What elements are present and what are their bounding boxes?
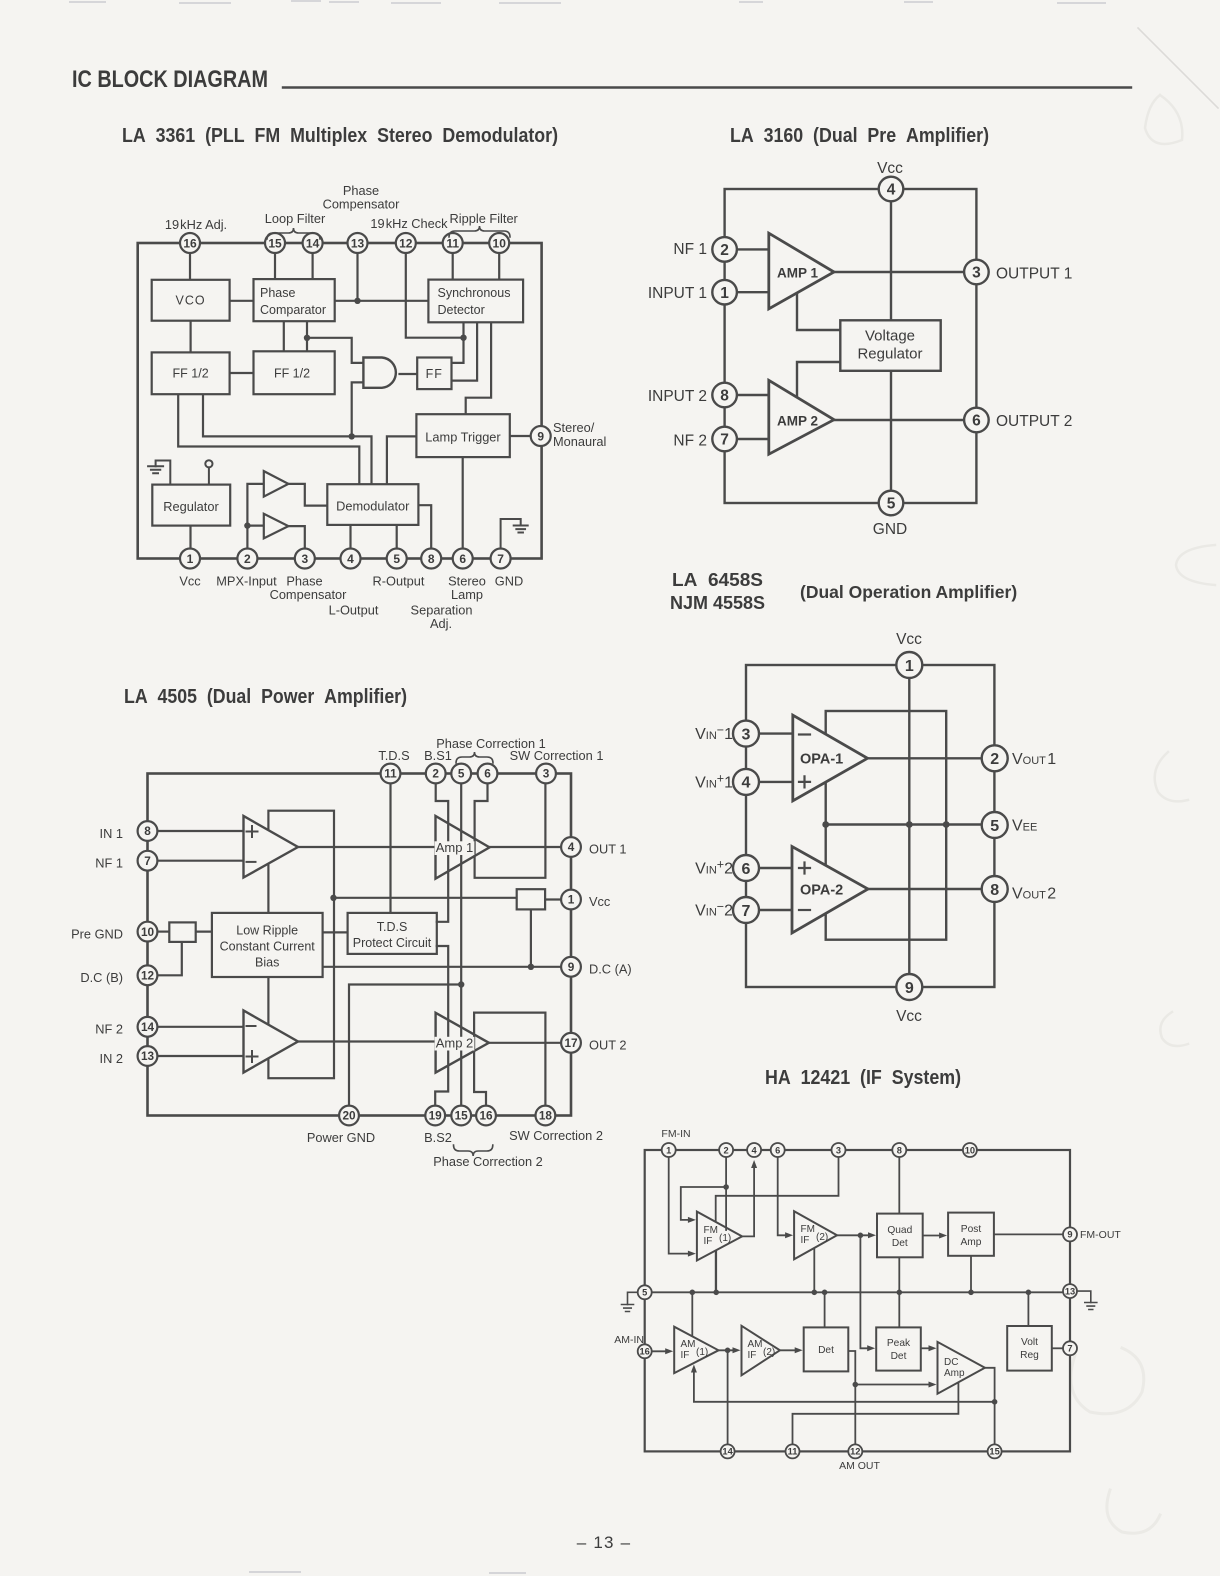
svg-text:4: 4 [347,552,354,566]
svg-text:5: 5 [393,552,400,566]
label Amp 1 [435,841,475,855]
svg-text:2: 2 [990,751,999,768]
brace Phase Correction 1 [456,752,493,763]
svg-text:14: 14 [306,236,320,250]
wire pin1 to AMP1 [737,291,769,293]
pin 3 [295,549,315,569]
wire pin4 to Voltage Regulator [890,201,892,320]
pin 14 [138,1017,158,1037]
amplifier FM IF(2) [794,1211,837,1259]
svg-text:Amp: Amp [961,1237,982,1248]
svg-text:FF 1/2: FF 1/2 [173,367,209,381]
svg-text:Synchronous: Synchronous [438,286,511,300]
junction Vcc node [330,895,336,901]
label Amp 2 [435,1037,475,1051]
svg-text:9: 9 [537,429,544,443]
pin 11 [786,1444,800,1458]
block FF [417,358,451,390]
feedback frame rect [826,711,947,940]
wire pin2 to AMP1 [737,248,769,250]
svg-text:1: 1 [666,1145,671,1155]
svg-text:Vcc: Vcc [179,574,201,589]
junction bus FM IF2 [812,1290,818,1296]
svg-text:Demodulator: Demodulator [336,499,410,514]
svg-text:13: 13 [351,236,365,250]
wire pin13 down to node [356,253,358,301]
pin 17 [561,1033,581,1053]
pin 4 [341,549,361,569]
pin 15 [451,1106,471,1126]
svg-text:VEE: VEE [1012,818,1037,835]
pin 2 [982,745,1008,771]
svg-text:OUT 2: OUT 2 [589,1037,626,1052]
svg-text:(2): (2) [816,1232,828,1243]
junction node at pin13 line [354,298,360,304]
pin 7 [1063,1341,1077,1355]
svg-text:NF 1: NF 1 [673,241,707,258]
svg-text:AM-IN: AM-IN [614,1334,644,1346]
svg-text:MPX-Input: MPX-Input [216,574,277,589]
wire FF1/2 left to FF1/2 right [230,372,254,374]
svg-text:7: 7 [497,552,504,566]
brace Phase Correction 2 [454,1145,493,1156]
pin 1 [662,1143,676,1157]
amplifier Amp 2 [436,1013,489,1073]
junction bus Quad-Peak [897,1290,903,1296]
svg-text:SW Correction 1: SW Correction 1 [510,748,604,763]
svg-text:LA 3361 (PLL FM Multiplex: LA 3361 (PLL FM Multiplex Stereo Demodul… [122,125,558,147]
wire pin1 to pin9 center rail [908,678,910,974]
pin 5 [638,1285,652,1299]
svg-text:1: 1 [905,658,914,675]
pin 10 [963,1143,977,1157]
svg-text:(Dual Operation Amplifier): (Dual Operation Amplifier) [800,582,1017,602]
svg-text:2: 2 [724,1145,729,1155]
input amp 2 triangle [244,1011,299,1073]
svg-text:1: 1 [568,893,575,907]
svg-text:Vсс: Vсс [877,160,903,177]
wire pin3 to OPA-1 inverting input [759,732,793,734]
svg-text:LA 6458S: LA 6458S [672,570,763,590]
pin 15 [988,1444,1002,1458]
pin 10 [138,922,158,942]
svg-text:13: 13 [141,1049,155,1063]
svg-text:FF: FF [426,367,443,381]
block Demodulator [327,484,418,525]
pin 4 [747,1143,761,1157]
svg-text:Quad: Quad [887,1225,912,1236]
svg-text:Volt: Volt [1021,1337,1038,1348]
wire pin2 to buffer amps [247,484,263,549]
junction FM IF2 output [858,1233,864,1239]
svg-text:6: 6 [775,1145,780,1155]
junction ground node [458,981,464,987]
wire Demodulator to pin8 [418,505,431,549]
buffer amp lower [264,514,289,539]
wire pin11 to Synchronous Detector [452,253,454,280]
svg-text:9: 9 [905,980,914,997]
svg-text:4: 4 [742,775,751,792]
pin 11 [381,764,401,784]
wire pin14 to input amp2 [157,1026,243,1028]
svg-text:Protect Circuit: Protect Circuit [353,936,432,950]
svg-text:Monaural: Monaural [553,434,606,449]
junction node at pin2 wire [244,522,250,528]
amplifier AMP2 [769,380,834,454]
pin 8 [138,821,158,841]
block Synchronous Detector [428,280,523,323]
svg-text:IF: IF [704,1236,713,1247]
svg-text:3: 3 [742,726,751,743]
amplifier DC Amp [938,1342,985,1394]
block Lamp Trigger [416,414,509,457]
svg-text:Peak: Peak [887,1338,911,1349]
svg-text:10: 10 [141,925,155,939]
wire Post Amp to pin9 [994,1233,1063,1235]
pin 6 [453,549,473,569]
svg-text:VOUT 2: VOUT 2 [1012,886,1056,903]
svg-text:Stereo/: Stereo/ [553,420,595,435]
svg-text:INPUT 2: INPUT 2 [648,388,707,405]
pin 4 [733,769,759,795]
wire pin11 to DC Amp bottom [793,1382,959,1444]
svg-text:16: 16 [640,1347,650,1357]
svg-text:Loop Filter: Loop Filter [265,211,326,226]
svg-text:VIN+1: VIN+1 [695,771,733,791]
pin 7 [138,851,158,871]
block Volt Reg [1007,1326,1052,1371]
pin 16 [180,233,200,253]
wire Demodulator to pin5 [396,525,398,549]
svg-text:12: 12 [399,236,413,250]
svg-text:Phase Correction 2: Phase Correction 2 [433,1154,543,1169]
pin 5 [879,491,904,516]
svg-text:(1): (1) [696,1347,708,1358]
svg-text:AM OUT: AM OUT [839,1460,880,1472]
svg-text:Lamp Trigger: Lamp Trigger [425,430,501,445]
svg-text:3: 3 [543,767,550,781]
svg-text:LA 3160 (Dual Pre Amplifie: LA 3160 (Dual Pre Amplifier) [730,125,989,147]
svg-text:10: 10 [965,1145,975,1155]
svg-text:Compensator: Compensator [323,197,401,212]
wire bus down to Det top [824,1292,826,1327]
pin 15 [265,233,285,253]
wire pin15 to Phase Comparator [274,253,276,280]
wire Lamp Trigger to pin6 [462,457,464,549]
wire pin11 to TDS [389,783,391,913]
pin 14 [721,1444,735,1458]
wire pin20 ground rail [349,985,461,1106]
svg-text:10: 10 [493,236,507,250]
scan artifact marks (top edge) [70,1,1105,3]
wire pin8 to Quad Det [898,1157,900,1214]
svg-text:Amp 2: Amp 2 [436,1036,474,1051]
wire pin7 to input amp1 [157,860,243,862]
svg-text:IC BLOCK DIAGRAM: IC BLOCK DIAGRAM [72,66,268,93]
svg-text:VIN+2: VIN+2 [695,857,733,877]
pin 13 [1063,1284,1077,1298]
feedback frame rect [268,811,334,1078]
svg-text:Voltage: Voltage [865,328,915,345]
block Regulator [152,485,230,526]
amplifier Amp 1 [436,816,490,879]
wire AM IF1 output to AM IF2 [719,1349,735,1351]
svg-text:T.D.S: T.D.S [377,920,408,934]
svg-text:Post: Post [961,1224,982,1235]
svg-text:8: 8 [990,882,999,899]
wire Quad Det to Peak Det [898,1257,900,1327]
svg-text:Phase: Phase [260,286,295,300]
IC outline LA6458S [746,665,994,987]
pin 16 [638,1344,652,1358]
wire node to AND gate upper input [307,338,363,363]
junction VEE center [906,821,913,828]
block Post Amp [948,1213,994,1256]
wire node to DC Amp lower input [855,1384,930,1386]
wire AGC feedback to AM IF1 [694,1372,995,1402]
junction node at AND lower wire [349,433,355,439]
pin 7 [712,427,737,452]
svg-text:AM: AM [748,1339,763,1350]
wire AND gate output to FF [400,373,418,375]
wire Volt Reg to pin7 [1052,1347,1063,1349]
pin 3 [733,721,759,747]
svg-text:VOUT 1: VOUT 1 [1012,751,1056,768]
ground symbol near pin7 [501,519,521,549]
wire AM IF1 top to bus [691,1292,693,1336]
wire Low Ripple to TDS [323,931,348,933]
wire Synchronous Detector to FF (b) [452,322,478,380]
pin 2 [426,764,446,784]
svg-text:IF: IF [801,1235,810,1246]
svg-text:3: 3 [972,265,981,282]
svg-text:15: 15 [989,1447,999,1457]
wire pin4 to OPA-1 non-inverting input [759,781,793,783]
pin 3 [832,1143,846,1157]
junction pin2 branch [723,1184,729,1190]
svg-text:6: 6 [459,552,466,566]
wire node to lower buffer [247,524,263,526]
junction node below Phase Comparator [304,335,310,341]
svg-text:17: 17 [564,1036,578,1050]
svg-text:8: 8 [428,552,435,566]
wire Regulator to pin1 [189,526,191,549]
svg-text:HA 12421 (IF System): HA 12421 (IF System) [765,1067,961,1089]
wire Vcc box down to DCA rail [530,909,532,966]
pin 1 [896,652,922,678]
wire pin6 to OPA-2 non-inverting input [759,867,792,869]
scan artifact diagonal page curl (top right) [1138,28,1218,108]
IC outline HA12421 [645,1150,1070,1451]
wire pin2 down [725,1157,727,1230]
svg-text:Det: Det [891,1351,907,1362]
block TDS Protect Circuit [348,913,437,954]
svg-text:6: 6 [484,767,491,781]
block Quad Det [877,1214,923,1258]
svg-text:14: 14 [141,1020,155,1034]
svg-text:3: 3 [836,1145,841,1155]
wire pin2 branch to FM IF1 upper input [681,1187,726,1220]
junction VEE left [822,821,829,828]
svg-text:NJM 4558S: NJM 4558S [670,593,765,613]
pin 5 [387,549,407,569]
svg-text:7: 7 [720,432,729,449]
pin 4 [561,837,581,857]
IC outline LA3160 [725,189,977,503]
wire OPA-2 output to pin8 [868,888,982,890]
wire FM IF1 bottom to bus [715,1250,717,1292]
wire VCO to Phase Comparator [230,300,254,302]
svg-text:9: 9 [1067,1230,1072,1240]
amplifier AM IF(1) [674,1327,718,1373]
svg-text:11: 11 [446,236,459,250]
svg-text:12: 12 [141,969,155,983]
svg-text:GND: GND [495,574,523,589]
wire upper buffer to Demodulator [288,484,327,506]
wire FM IF1 output to pin4 [742,1168,754,1236]
wire pin19 to TDS right [435,946,448,1106]
svg-text:NF 1: NF 1 [95,856,123,871]
pin 1 [561,890,581,910]
svg-text:19 kHz Check: 19 kHz Check [370,216,448,231]
wire FM IF2 output branch to Peak Det [860,1235,869,1348]
block FF 1/2 left [152,352,230,394]
svg-text:Low Ripple: Low Ripple [236,924,298,938]
svg-text:VIN−2: VIN−2 [695,899,733,919]
wire pin16 to pin18 upper rail [474,1013,545,1106]
svg-text:B.S2: B.S2 [424,1130,452,1145]
wire Amp2 output to pin17 [489,1042,561,1044]
wire lower buffer to pin3 [288,526,304,549]
svg-text:4: 4 [752,1145,758,1155]
wire AM IF2 output to Det [780,1349,797,1351]
junction bus Post Amp [968,1290,974,1296]
svg-text:5: 5 [458,767,465,781]
wire Lamp Trigger to pin9 [510,435,531,437]
pin 8 [892,1143,906,1157]
junction bus AM IF1 [690,1290,696,1296]
pin 10 [489,233,509,253]
svg-text:Detector: Detector [438,303,485,317]
wire pin3 to bus through FM IF1 [716,1157,839,1292]
wire DC Amp output to pin15 [985,1368,995,1445]
pin 13 [348,233,368,253]
svg-text:OUT 1: OUT 1 [589,842,626,857]
ground symbol at pin13 [1077,1291,1091,1302]
block Peak Det [876,1327,921,1370]
svg-text:FF 1/2: FF 1/2 [274,367,310,381]
op-amp OPA-2 [792,847,868,934]
junction bus Det [822,1290,828,1296]
svg-text:2: 2 [432,767,439,781]
pin 13 [138,1046,158,1066]
svg-text:15: 15 [268,236,282,250]
op-amp OPA-1 [793,715,868,801]
IC outline LA4505 [148,774,572,1116]
svg-text:3: 3 [301,552,308,566]
svg-text:8: 8 [720,388,729,405]
svg-text:VIN−1: VIN−1 [695,723,733,743]
svg-text:GND: GND [873,521,907,538]
svg-text:11: 11 [384,767,397,781]
svg-text:AMP 1: AMP 1 [777,266,819,281]
wire pin10 to isolator box [157,930,169,932]
svg-text:Power GND: Power GND [307,1130,375,1145]
IC outline LA3361 [138,243,542,559]
wire pin7 to AMP2 [737,438,769,440]
wire pin2 to TDS right [436,783,449,922]
svg-text:Ripple Filter: Ripple Filter [450,211,519,226]
svg-text:(2): (2) [763,1347,775,1358]
svg-text:R-Output: R-Output [373,574,425,589]
svg-text:NF 2: NF 2 [673,433,707,450]
junction Det-pin12 node [853,1382,859,1388]
svg-text:Bias: Bias [255,956,279,970]
svg-text:Vcc: Vcc [589,894,611,909]
svg-text:SW Correction 2: SW Correction 2 [509,1128,603,1143]
svg-text:VCO: VCO [176,294,206,308]
pin 9 [1063,1227,1077,1241]
pin 9 [896,974,922,1000]
svg-text:OUTPUT 2: OUTPUT 2 [996,413,1072,430]
wire AM IF1 output to pin14 [727,1350,729,1444]
svg-text:19: 19 [429,1109,443,1123]
svg-text:OPA-1: OPA-1 [800,752,843,768]
pin 6 [478,764,498,784]
wire pin8 to input amp1 [157,830,243,832]
svg-text:IF: IF [681,1350,690,1361]
wire VEE rail [826,823,982,825]
pin 4 [879,177,904,202]
junction VEE right [943,821,950,828]
svg-text:20: 20 [342,1109,356,1123]
wire AMP1 to Voltage Regulator [797,293,840,330]
junction DC Amp output node [992,1399,998,1405]
svg-text:FM: FM [704,1225,718,1236]
svg-text:FM-OUT: FM-OUT [1080,1229,1121,1241]
pin 7 [491,549,511,569]
pin 16 [476,1106,496,1126]
terminal circle above Regulator [205,460,212,467]
svg-text:NF 2: NF 2 [95,1022,123,1037]
svg-text:Comparator: Comparator [260,303,326,317]
header underline [283,86,1131,88]
svg-text:8: 8 [144,824,151,838]
svg-text:9: 9 [568,960,575,974]
svg-text:Amp 1: Amp 1 [436,840,474,855]
svg-text:1: 1 [187,552,194,566]
svg-text:15: 15 [455,1109,469,1123]
wire AND gate lower input down to node [352,382,364,436]
svg-text:16: 16 [479,1109,493,1123]
svg-text:Amp: Amp [944,1368,965,1379]
junction node at pin12 line [460,335,466,341]
pin 5 [451,764,471,784]
wire pin16 to VCO [189,253,191,280]
svg-text:6: 6 [972,413,981,430]
block Low Ripple Constant Current Bias [212,913,323,977]
svg-text:12: 12 [850,1447,860,1457]
input amp 1 triangle [244,816,299,878]
svg-text:5: 5 [990,818,999,835]
svg-text:Adj.: Adj. [430,616,452,631]
svg-text:B.S1: B.S1 [424,748,452,763]
wire Phase Comparator to FF1/2 right (b) [306,321,308,351]
wire pin14 to Phase Comparator [312,253,314,280]
wire pin6 jog to pin3 lower rail [475,783,546,878]
buffer amp upper [264,471,289,497]
wire FF1/2 left to Demodulator (b) [203,394,372,484]
